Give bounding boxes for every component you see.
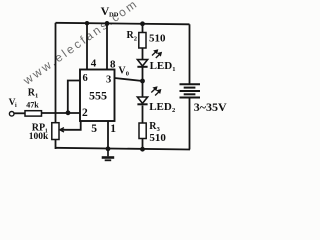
svg-text:2: 2 <box>172 107 175 114</box>
label LED1 <box>150 60 176 73</box>
svg-text:DD: DD <box>109 12 119 19</box>
wire bottom ground rail <box>56 148 191 150</box>
wire battery bottom to rail <box>189 98 191 150</box>
svg-text:3~35V: 3~35V <box>194 100 227 114</box>
wire input Vi to R1 <box>14 112 25 114</box>
ground <box>102 149 115 161</box>
node dot VDD pin8/rail <box>105 21 110 26</box>
input terminal Vi <box>9 112 14 117</box>
wire pin 4 to rail <box>86 23 88 70</box>
wire pin 3 output <box>115 78 143 81</box>
node dot R2 branch/rail <box>140 21 145 26</box>
LED1 diode symbol <box>137 60 147 67</box>
svg-text:LED: LED <box>150 60 173 72</box>
svg-text:6: 6 <box>83 73 88 84</box>
wire right vertical to battery top <box>189 24 191 83</box>
wire RP1 bottom lead <box>55 140 57 150</box>
node dot pin4/rail <box>85 21 89 25</box>
wire pin 5 to RP1 wiper <box>61 121 81 130</box>
svg-text:i: i <box>15 103 17 109</box>
LED1 emission arrows <box>152 50 161 58</box>
svg-text:510: 510 <box>149 33 166 45</box>
svg-text:2: 2 <box>134 36 137 43</box>
battery B1 3~35V <box>180 84 201 97</box>
resistor R2 510 <box>139 33 146 49</box>
label VDD <box>101 4 119 19</box>
wire pin 1 to ground rail <box>107 121 109 149</box>
potentiometer RP1 100k body <box>52 123 59 140</box>
wire LED2 to R3 <box>142 106 144 124</box>
wire pin 8 to rail <box>106 23 108 70</box>
IC U1 555 timer body <box>80 70 115 122</box>
watermark <box>20 0 141 88</box>
svg-text:5: 5 <box>91 123 97 135</box>
svg-text:3: 3 <box>106 75 111 86</box>
wire R2 branch from rail <box>142 24 144 33</box>
node dot pin6/pin2 tie <box>66 110 71 115</box>
wire R3 to ground rail <box>142 139 144 150</box>
wire R2 to LED1 <box>142 48 144 60</box>
wire left vertical VDD to RP1 <box>55 23 57 123</box>
potentiometer RP1 wiper arrow <box>60 128 66 132</box>
svg-text:1: 1 <box>35 93 38 100</box>
label Vi <box>9 98 17 109</box>
svg-text:LED: LED <box>149 101 172 113</box>
svg-text:1: 1 <box>172 66 175 73</box>
svg-text:47k: 47k <box>26 100 39 109</box>
label Vo <box>118 66 129 78</box>
node dot output node <box>140 79 145 84</box>
wire R1 to pin 2 <box>42 112 81 114</box>
node dot R3/ground rail <box>140 147 145 152</box>
svg-text:100k: 100k <box>29 132 49 142</box>
label R2 <box>127 30 138 43</box>
node dot pin1/ground rail <box>106 146 111 151</box>
label R1 <box>28 88 39 100</box>
label LED2 <box>149 101 175 114</box>
svg-text:4: 4 <box>91 58 97 70</box>
resistor R3 510 <box>139 123 146 139</box>
LED2 diode symbol <box>137 97 147 104</box>
wire node to LED2 <box>142 81 144 97</box>
wire LED1 to node <box>142 68 144 82</box>
resistor R1 47k <box>25 111 42 116</box>
svg-text:0: 0 <box>126 71 129 78</box>
svg-text:510: 510 <box>149 132 166 144</box>
label RP1 <box>32 123 48 135</box>
svg-text:8: 8 <box>110 58 116 70</box>
svg-text:555: 555 <box>89 89 107 103</box>
wire VDD top rail <box>56 23 190 25</box>
LED2 emission arrows <box>151 87 160 95</box>
wire pin 6 tie to pin 2 node <box>68 81 80 113</box>
svg-text:2: 2 <box>82 107 88 119</box>
svg-text:1: 1 <box>110 123 116 135</box>
label R3 <box>149 121 160 133</box>
